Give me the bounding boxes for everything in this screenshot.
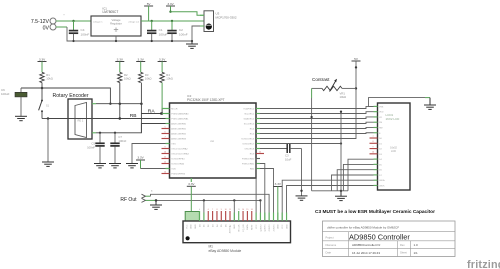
svg-text:RC4: RC4 bbox=[250, 129, 255, 131]
pin 1 PIC left MCLR bbox=[162, 109, 178, 111]
capacitor C3 10uF VCAP bbox=[260, 144, 302, 161]
svg-text:3.3V: 3.3V bbox=[188, 182, 195, 186]
pin 19 module QOUT1 bbox=[265, 213, 267, 232]
svg-text:RC5: RC5 bbox=[250, 134, 255, 136]
wire R2 to node RB bbox=[119, 83, 121, 119]
svg-text:8: 8 bbox=[372, 141, 373, 143]
svg-text:PIC32MX 150F 128D-XPT: PIC32MX 150F 128D-XPT bbox=[187, 98, 225, 102]
svg-text:OSC1/CLKI/RA2: OSC1/CLKI/RA2 bbox=[171, 148, 188, 151]
voltage regulator IC1 LM7805CT bbox=[91, 6, 141, 36]
capacitor C5 100nF debounce bbox=[87, 133, 105, 164]
svg-text:GND: GND bbox=[234, 224, 236, 229]
svg-text:voltage out: voltage out bbox=[128, 20, 139, 23]
svg-text:RE 1: RE 1 bbox=[78, 119, 84, 123]
pin 16 PIC right Vbus/RC1 bbox=[244, 114, 260, 116]
pin 5 LCD RW bbox=[374, 127, 383, 129]
svg-text:7: 7 bbox=[164, 136, 165, 138]
svg-text:7.5-12V: 7.5-12V bbox=[31, 19, 50, 25]
pin 1 LCD VSS bbox=[374, 106, 384, 108]
svg-text:3.3V: 3.3V bbox=[117, 57, 124, 61]
svg-text:100uF: 100uF bbox=[159, 32, 168, 36]
svg-text:4: 4 bbox=[199, 209, 200, 211]
ground for C3 bbox=[296, 195, 308, 197]
svg-text:SOSCO/RA4: SOSCO/RA4 bbox=[171, 163, 185, 166]
pin 10 PIC left OSC2/CLKO/RA3 bbox=[162, 151, 190, 155]
pin 13 PIC left VDD bbox=[166, 169, 177, 171]
pin 14 LCD D7 bbox=[374, 175, 383, 177]
svg-text:SDA1/RC2: SDA1/RC2 bbox=[243, 118, 254, 121]
pin 8 PIC left VSS bbox=[166, 144, 177, 146]
svg-text:Regulator: Regulator bbox=[110, 22, 122, 26]
pin 24 PIC right RC9 bbox=[250, 151, 264, 155]
wire 7.5-12V input to regulator IN bbox=[56, 20, 98, 22]
terminal RF Out bbox=[120, 190, 153, 204]
pin 18 module QOUT2 bbox=[260, 213, 262, 232]
svg-text:VSS: VSS bbox=[379, 106, 384, 108]
wire switch to ground bbox=[42, 117, 49, 162]
pin 19 PIC right RC4 bbox=[250, 129, 260, 131]
svg-text:OSC/RC8: OSC/RC8 bbox=[244, 149, 255, 151]
svg-text:10kΩ: 10kΩ bbox=[46, 77, 53, 81]
svg-text:VCAP/RC0: VCAP/RC0 bbox=[243, 108, 255, 111]
svg-text:eBay AD9850 Module: eBay AD9850 Module bbox=[209, 249, 242, 253]
pin 2 PIC left PGED1/AN0/RA0 bbox=[166, 113, 190, 116]
pin 21 PIC right SOSCO/RC6 bbox=[241, 139, 260, 141]
svg-text:ZOUT2: ZOUT2 bbox=[269, 224, 271, 232]
pin 11 LCD D4 bbox=[374, 159, 383, 161]
ground for LCD bbox=[335, 191, 347, 201]
svg-text:9: 9 bbox=[221, 209, 222, 211]
pin 14 PIC left PGED3/RPB5 bbox=[162, 171, 186, 175]
svg-text:GND: GND bbox=[195, 224, 197, 229]
wire RF out signal to module bbox=[146, 194, 270, 221]
svg-text:3.3V: 3.3V bbox=[137, 156, 144, 160]
svg-text:GND: GND bbox=[278, 224, 280, 229]
pin 23 PIC right OSC/RC8 bbox=[244, 149, 260, 151]
power flag 3.3V PIC bottom VDD bbox=[187, 178, 196, 186]
svg-text:9: 9 bbox=[372, 146, 373, 148]
capacitor C2 100nF bbox=[167, 21, 187, 42]
pin 5 PIC left AN3/C2IN/RB1 bbox=[162, 126, 187, 130]
pin 10 LCD D3 bbox=[370, 152, 383, 156]
pin 2 LCD VDD bbox=[374, 112, 384, 114]
svg-text:9: 9 bbox=[164, 146, 165, 148]
ground for PIC VSS bbox=[126, 163, 138, 165]
pin 10 module D6 bbox=[225, 209, 228, 227]
svg-text:Rotary Encoder: Rotary Encoder bbox=[53, 93, 89, 99]
svg-text:AD9850Controller.fzz: AD9850Controller.fzz bbox=[352, 243, 381, 247]
svg-text:RW: RW bbox=[379, 127, 382, 129]
svg-text:SCL1/RC3: SCL1/RC3 bbox=[244, 124, 255, 126]
pin 14 module FQ_UD bbox=[242, 209, 245, 232]
pin 8 module D4 bbox=[216, 209, 218, 227]
svg-text:REST: REST bbox=[252, 224, 254, 230]
svg-text:SOSCI/RPB4: SOSCI/RPB4 bbox=[171, 159, 185, 161]
svg-text:LM7805CT: LM7805CT bbox=[103, 10, 119, 14]
pin 6 module D2 bbox=[208, 209, 210, 227]
svg-text:SOSCI/RC7: SOSCI/RC7 bbox=[242, 144, 255, 146]
switch S1 encoder push button bbox=[39, 88, 50, 119]
ground for C5 bbox=[94, 163, 106, 165]
microcontroller IC3 PIC32MX150F128D bbox=[170, 94, 257, 178]
wire IC1 ground pin to rail bbox=[115, 36, 117, 42]
pin 17 module VCC bbox=[256, 213, 258, 229]
svg-text:PGED1/RB0: PGED1/RB0 bbox=[242, 159, 255, 161]
svg-text:7: 7 bbox=[212, 209, 213, 211]
wire node A pull-up to encoder bbox=[42, 88, 112, 105]
svg-text:RB: RB bbox=[130, 113, 137, 119]
pin 11 PIC left SOSCI/RPB4 bbox=[162, 156, 186, 160]
svg-text:10: 10 bbox=[164, 151, 166, 153]
pin 23 module VCC bbox=[282, 213, 284, 229]
svg-text:MCLR: MCLR bbox=[171, 109, 178, 111]
svg-text:13: 13 bbox=[238, 209, 240, 211]
svg-text:VDD: VDD bbox=[379, 112, 384, 114]
svg-text:10kΩ: 10kΩ bbox=[145, 77, 152, 81]
svg-text:8: 8 bbox=[216, 209, 217, 211]
pin 2 module GND bbox=[191, 224, 193, 229]
ground for switch S1 bbox=[42, 162, 54, 166]
pin 21 module ZOUT1 bbox=[273, 213, 275, 232]
wire LCD ground returns bbox=[312, 159, 374, 192]
pin 16 LCD LEDK bbox=[374, 185, 386, 187]
svg-text:uWire controller for eBay AD98: uWire controller for eBay AD9850 Module … bbox=[327, 225, 399, 229]
capacitor C4 100nF input decoupling bbox=[69, 21, 90, 42]
pin 11 module D7 bbox=[229, 209, 232, 227]
wire 5V output rail bbox=[141, 20, 204, 22]
potentiometer VR1 10k contrast bbox=[312, 77, 356, 99]
svg-text:VDD: VDD bbox=[171, 169, 176, 171]
pin 8 LCD D1 bbox=[370, 141, 383, 145]
pin 13 module W_CLK bbox=[238, 209, 241, 232]
svg-text:LCD: LCD bbox=[391, 150, 396, 153]
pin 15 PIC right VCAP/RC0 bbox=[243, 108, 260, 111]
svg-text:xtal: xtal bbox=[210, 140, 214, 143]
svg-text:AN4/C1IN/RB2: AN4/C1IN/RB2 bbox=[171, 133, 186, 136]
svg-text:GND: GND bbox=[191, 224, 193, 229]
svg-text:GND: GND bbox=[286, 224, 288, 229]
svg-text:RF Out: RF Out bbox=[120, 197, 137, 203]
wire PIC to LCD VSS ground net bbox=[260, 142, 342, 144]
title block frame bbox=[323, 221, 456, 257]
terminal J1 7.5-12V input bbox=[31, 18, 56, 31]
svg-text:100uF: 100uF bbox=[1, 92, 10, 96]
svg-text:100nF: 100nF bbox=[118, 139, 126, 143]
wire 3.3V to module VCC pad bbox=[185, 186, 199, 221]
ground for C6 bbox=[15, 97, 27, 121]
svg-text:12: 12 bbox=[164, 161, 166, 163]
svg-text:6: 6 bbox=[164, 131, 165, 133]
svg-text:3.3V: 3.3V bbox=[39, 57, 46, 61]
rotary encoder RE1 bbox=[53, 93, 93, 139]
svg-text:10: 10 bbox=[225, 209, 227, 211]
svg-text:15: 15 bbox=[246, 209, 248, 211]
pin 12 module GND bbox=[234, 213, 236, 230]
wire node RB switch line to PIC bbox=[48, 117, 170, 120]
svg-text:10kΩ: 10kΩ bbox=[166, 77, 173, 81]
svg-text:14: 14 bbox=[242, 209, 244, 211]
svg-text:LEDK: LEDK bbox=[379, 185, 385, 187]
pin 24 module GND bbox=[286, 213, 288, 230]
svg-text:VCC: VCC bbox=[256, 224, 258, 229]
svg-text:FQ_UD: FQ_UD bbox=[243, 224, 245, 232]
svg-text:3.3V: 3.3V bbox=[275, 182, 282, 186]
pin 7 LCD D0 bbox=[370, 136, 383, 140]
svg-text:Contrast: Contrast bbox=[312, 77, 330, 82]
pin 3 LCD VO bbox=[374, 117, 383, 119]
capacitor C7 100nF debounce bbox=[110, 133, 126, 164]
wire PIC RC5 to LCD pin 6 bbox=[260, 132, 374, 135]
power flag 3.3V for R4 bbox=[158, 57, 167, 72]
power flag 3.3V PIC VDD bbox=[136, 156, 170, 169]
svg-text:Date: Date bbox=[326, 251, 332, 255]
wire pot wiper to LCD VO bbox=[310, 88, 322, 190]
pin 12 LCD D5 bbox=[374, 164, 383, 166]
svg-text:10: 10 bbox=[372, 152, 374, 154]
wire module ground pins bbox=[204, 200, 261, 221]
svg-text:PGEC1/AN1/RA1: PGEC1/AN1/RA1 bbox=[171, 118, 189, 121]
svg-text:3.3V: 3.3V bbox=[159, 57, 166, 61]
svg-text:16X2 LCD: 16X2 LCD bbox=[386, 117, 401, 121]
wire encoder pin A bbox=[92, 102, 143, 105]
svg-text:11: 11 bbox=[229, 209, 231, 211]
pin 9 module D5 bbox=[221, 209, 223, 227]
regulator U3 MCP1700-3302 bbox=[200, 11, 237, 32]
svg-text:ZOUT1: ZOUT1 bbox=[273, 224, 275, 232]
pin 6 LCD E bbox=[374, 133, 382, 135]
pin 17 PIC right SDA1/RC2 bbox=[243, 118, 260, 121]
svg-text:W_CLK: W_CLK bbox=[239, 224, 241, 232]
svg-text:100nF: 100nF bbox=[87, 145, 95, 149]
ground power section bbox=[186, 41, 198, 48]
pin 5 module D1 bbox=[204, 213, 206, 228]
pin 3 module GND bbox=[195, 224, 197, 229]
svg-text:VSS: VSS bbox=[171, 144, 176, 146]
pin 6 PIC left AN4/C1IN/RB2 bbox=[162, 131, 187, 135]
pin 15 module DATA bbox=[246, 209, 249, 230]
pin 9 PIC left OSC1/CLKI/RA2 bbox=[162, 146, 189, 150]
svg-text:AN5/C1IN/RB3: AN5/C1IN/RB3 bbox=[171, 138, 186, 141]
wire PIC RC2 to LCD pin 3 bbox=[260, 117, 374, 119]
svg-text:fritzing: fritzing bbox=[467, 259, 500, 269]
capacitor C6 100uF electrolytic bbox=[1, 88, 42, 97]
svg-text:Filename: Filename bbox=[326, 243, 337, 247]
svg-text:100nF: 100nF bbox=[81, 32, 90, 36]
wire RF ground bbox=[146, 199, 262, 202]
pin 4 PIC left AN2/C2IN/RB0 bbox=[166, 123, 187, 126]
power flag 5V for contrast bbox=[352, 57, 361, 90]
resistor R1 10k pull-up bbox=[40, 72, 53, 82]
pin 20 module ZOUT2 bbox=[269, 213, 271, 232]
svg-text:16 Jul 2014 17:49:43: 16 Jul 2014 17:49:43 bbox=[352, 251, 380, 255]
pin 25 PIC right PGED1/RB0 bbox=[242, 159, 260, 161]
svg-text:1.0: 1.0 bbox=[414, 243, 419, 247]
wire 3.3V from U3 VOUT bbox=[169, 6, 204, 15]
svg-text:24: 24 bbox=[259, 151, 261, 153]
svg-text:Vbus/RC1: Vbus/RC1 bbox=[244, 114, 255, 116]
svg-text:RA: RA bbox=[148, 109, 156, 115]
svg-text:3.3V: 3.3V bbox=[138, 57, 145, 61]
svg-text:OSC2/CLKO/RA3: OSC2/CLKO/RA3 bbox=[171, 153, 189, 156]
wire R1 to switch node bbox=[41, 83, 44, 90]
wire node RA to PIC bbox=[141, 112, 169, 114]
pin 22 PIC right SOSCI/RC7 bbox=[242, 144, 260, 146]
svg-text:5: 5 bbox=[164, 126, 165, 128]
svg-text:PGEC1/RB1: PGEC1/RB1 bbox=[242, 164, 255, 166]
wire C3 to ground bbox=[300, 149, 302, 196]
svg-text:6: 6 bbox=[208, 209, 209, 211]
pin 27 PIC right RB2 bbox=[250, 169, 260, 171]
wire PIC VSS pin to ground bbox=[132, 144, 170, 164]
pin 26 PIC right PGEC1/RB1 bbox=[242, 164, 260, 166]
pin 20 PIC right RC5 bbox=[250, 134, 260, 136]
svg-text:QOUT2: QOUT2 bbox=[260, 224, 262, 232]
wire PIC RC1 to LCD pin 2 bbox=[260, 112, 374, 114]
pin 18 PIC right SCL1/RC3 bbox=[244, 124, 260, 126]
resistor R2 10k pull-up bbox=[118, 72, 131, 82]
power flag 3.3V module bbox=[273, 182, 282, 221]
pin 3 PIC left PGEC1/AN1/RA1 bbox=[166, 118, 190, 121]
title block date row bbox=[326, 251, 419, 255]
pin 13 LCD D6 bbox=[374, 170, 383, 172]
wire R3 to node A bbox=[140, 83, 142, 133]
svg-text:AN3/C2IN/RB1: AN3/C2IN/RB1 bbox=[171, 128, 186, 131]
capacitor C1 100uF bbox=[147, 21, 167, 42]
svg-text:Rev: Rev bbox=[400, 243, 405, 247]
ground right of LCD bbox=[424, 104, 436, 106]
svg-text:DATA: DATA bbox=[246, 224, 249, 230]
svg-text:7: 7 bbox=[372, 136, 373, 138]
wire PIC RC3 to LCD pin 4 bbox=[260, 122, 374, 123]
svg-text:PGED1/AN0/RA0: PGED1/AN0/RA0 bbox=[171, 113, 189, 116]
wire LCD VSS vertical bbox=[340, 111, 342, 191]
svg-text:C3 MUST be a low ESR Multilaye: C3 MUST be a low ESR Multilayer Ceramic … bbox=[315, 209, 435, 215]
pin 4 module D0 bbox=[199, 209, 201, 227]
svg-text:10kΩ: 10kΩ bbox=[124, 77, 131, 81]
svg-text:3.3V: 3.3V bbox=[167, 2, 174, 6]
wire PIC bottom right data lines to module bbox=[256, 159, 273, 222]
svg-text:RC9: RC9 bbox=[250, 154, 255, 156]
wire PIC RC4 to LCD pin 5 bbox=[260, 127, 374, 128]
power flag 3.3V for R2 bbox=[115, 57, 124, 72]
power flag 5V bbox=[144, 2, 153, 21]
pin 9 LCD D2 bbox=[370, 146, 383, 150]
wire LCD backlight pins to module bbox=[282, 180, 373, 221]
svg-text:0V: 0V bbox=[43, 25, 50, 31]
pin 12 PIC left SOSCO/RA4 bbox=[162, 161, 185, 165]
svg-text:VCC: VCC bbox=[186, 224, 188, 229]
svg-text:VO: VO bbox=[379, 117, 382, 119]
svg-text:voltage in: voltage in bbox=[93, 20, 103, 23]
resistor R4 10k pull-up bbox=[160, 72, 173, 82]
pin 7 module D3 bbox=[212, 209, 214, 227]
svg-text:Project: Project bbox=[326, 235, 334, 239]
resistor R3 10k pull-up bbox=[139, 72, 152, 82]
svg-text:100nF: 100nF bbox=[179, 32, 188, 36]
svg-text:10kΩ: 10kΩ bbox=[340, 95, 347, 99]
pin 1 module VCC bbox=[186, 224, 188, 229]
svg-text:14: 14 bbox=[164, 171, 166, 173]
wire encoder pin B to PIC bbox=[92, 124, 170, 135]
svg-text:11: 11 bbox=[164, 156, 166, 158]
svg-text:Sheet: Sheet bbox=[400, 251, 407, 255]
svg-text:LEDA: LEDA bbox=[379, 179, 385, 182]
title block project row bbox=[326, 232, 411, 241]
module M1 eBay AD9850 bbox=[183, 221, 291, 253]
wire U3 ground to rail bbox=[191, 26, 200, 42]
pin 4 LCD RS bbox=[374, 122, 383, 124]
svg-text:AN2/C2IN/RB0: AN2/C2IN/RB0 bbox=[171, 123, 186, 126]
svg-text:QOUT1: QOUT1 bbox=[265, 224, 267, 232]
svg-text:10uF: 10uF bbox=[285, 157, 292, 161]
wire LCD VSS loop to right ground bbox=[369, 98, 431, 107]
pin 15 LCD LEDA bbox=[374, 179, 386, 182]
svg-text:Voltage: Voltage bbox=[112, 18, 121, 22]
pin 16 module REST bbox=[251, 209, 254, 230]
svg-text:PGED3/RPB5: PGED3/RPB5 bbox=[171, 174, 186, 176]
svg-text:AD9850 Controller: AD9850 Controller bbox=[349, 232, 410, 241]
svg-text:16: 16 bbox=[251, 209, 253, 211]
svg-text:VCC: VCC bbox=[282, 224, 284, 229]
wire 0V return to ground rail bbox=[56, 27, 192, 41]
wire PIC to contrast pot and 5V net bbox=[260, 88, 356, 138]
ground for RF out bbox=[150, 200, 162, 209]
power flag 3.3V for R3 bbox=[136, 57, 145, 72]
pin 22 module GND bbox=[278, 213, 280, 230]
pin 7 PIC left AN5/C1IN/RB3 bbox=[162, 136, 187, 140]
svg-text:SOSCO/RC6: SOSCO/RC6 bbox=[241, 139, 255, 141]
title block filename row bbox=[326, 243, 419, 247]
svg-text:1/1: 1/1 bbox=[414, 251, 419, 255]
ground for C7 bbox=[109, 163, 121, 165]
svg-text:MCP1700-3302: MCP1700-3302 bbox=[216, 15, 237, 19]
wire PIC RC0 to LCD pin 1 bbox=[260, 106, 374, 108]
LCD display LCD1 16x2 bbox=[378, 103, 411, 190]
wire R4 to PIC pin 1 bbox=[162, 83, 169, 114]
power flag 3.3V at regulator output bbox=[166, 2, 175, 6]
power flag 3.3V for R1 bbox=[38, 57, 47, 72]
